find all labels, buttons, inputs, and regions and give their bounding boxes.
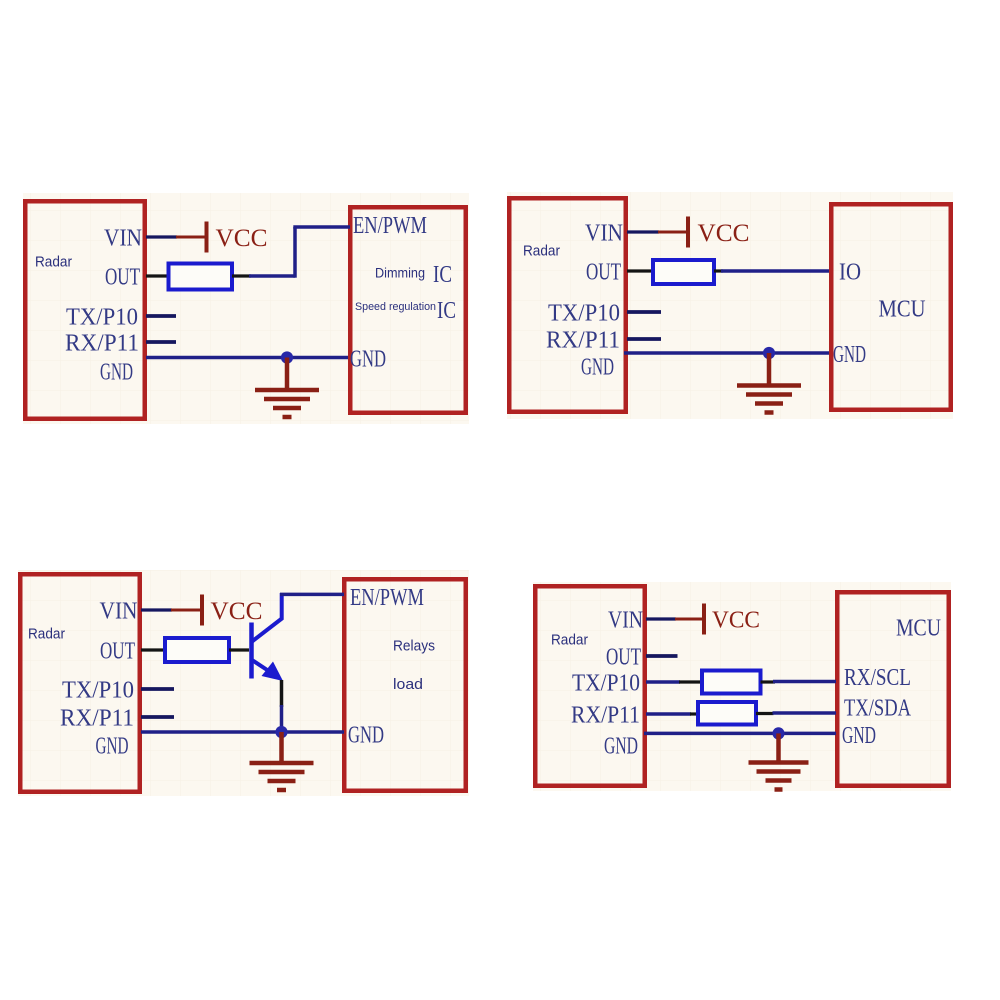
svg-text:GND: GND (842, 722, 876, 749)
svg-text:VIN: VIN (585, 219, 623, 246)
svg-text:EN/PWM: EN/PWM (353, 212, 427, 239)
svg-text:GND: GND (604, 732, 638, 759)
svg-text:GND: GND (350, 345, 386, 372)
svg-text:OUT: OUT (105, 263, 140, 290)
svg-text:TX/P10: TX/P10 (62, 676, 134, 703)
svg-text:VIN: VIN (100, 597, 138, 624)
svg-text:GND: GND (96, 732, 129, 759)
svg-text:RX/SCL: RX/SCL (844, 664, 911, 691)
svg-text:OUT: OUT (606, 643, 641, 670)
svg-text:RX/P11: RX/P11 (571, 701, 640, 728)
svg-text:VCC: VCC (216, 225, 268, 252)
svg-text:RX/P11: RX/P11 (546, 326, 620, 353)
svg-text:Radar: Radar (551, 631, 588, 648)
svg-text:Relays: Relays (393, 637, 435, 654)
svg-text:VIN: VIN (104, 224, 142, 251)
svg-text:Radar: Radar (35, 253, 72, 270)
svg-text:OUT: OUT (100, 637, 135, 664)
svg-text:TX/P10: TX/P10 (66, 303, 138, 330)
svg-text:VCC: VCC (211, 598, 263, 625)
svg-text:IO: IO (839, 258, 861, 285)
svg-text:VIN: VIN (608, 606, 643, 633)
svg-text:MCU: MCU (879, 297, 926, 323)
svg-text:Radar: Radar (28, 625, 65, 642)
svg-text:Radar: Radar (523, 242, 560, 259)
svg-text:TX/P10: TX/P10 (572, 669, 640, 696)
svg-text:MCU: MCU (896, 616, 941, 642)
svg-text:GND: GND (581, 353, 614, 380)
svg-text:Dimming: Dimming (375, 265, 425, 281)
svg-text:VCC: VCC (712, 607, 760, 633)
svg-text:RX/P11: RX/P11 (65, 329, 139, 356)
svg-text:IC: IC (437, 298, 456, 324)
svg-text:TX/SDA: TX/SDA (844, 694, 911, 721)
svg-text:load: load (393, 676, 423, 693)
svg-text:Speed regulation: Speed regulation (355, 301, 436, 313)
svg-text:OUT: OUT (586, 258, 621, 285)
svg-text:GND: GND (348, 721, 384, 748)
svg-text:RX/P11: RX/P11 (60, 704, 134, 731)
svg-text:TX/P10: TX/P10 (548, 299, 620, 326)
svg-text:EN/PWM: EN/PWM (350, 584, 424, 611)
svg-text:GND: GND (100, 358, 133, 385)
svg-text:IC: IC (433, 262, 452, 288)
svg-text:VCC: VCC (698, 220, 750, 247)
svg-text:GND: GND (833, 341, 866, 368)
